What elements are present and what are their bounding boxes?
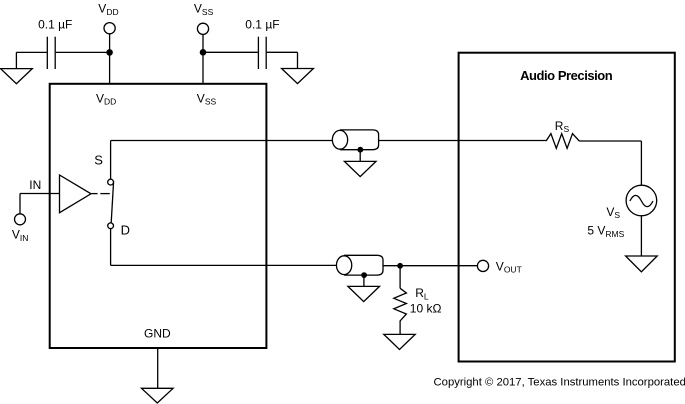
svg-text:Copyright © 2017, Texas Instru: Copyright © 2017, Texas Instruments Inco… [434,377,685,389]
svg-text:S: S [94,152,103,167]
svg-text:IN: IN [29,178,41,192]
svg-text:0.1 µF: 0.1 µF [38,17,72,31]
svg-text:GND: GND [144,327,171,341]
svg-text:Audio Precision: Audio Precision [520,68,613,83]
svg-text:D: D [121,222,130,237]
svg-text:10 kΩ: 10 kΩ [410,302,442,316]
svg-text:0.1 µF: 0.1 µF [245,17,279,31]
